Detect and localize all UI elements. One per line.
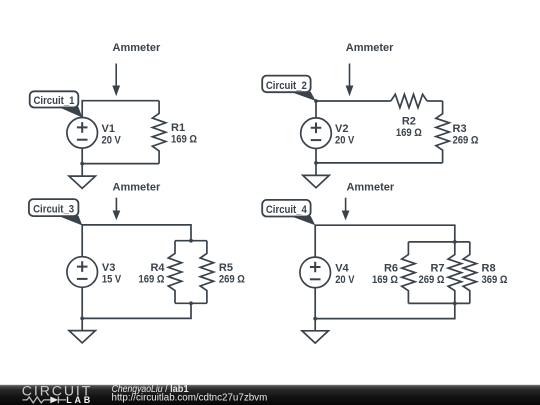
footer title ChengyaoLiu / lab1 bbox=[112, 384, 190, 395]
ammeter arrow (circuit 3) bbox=[113, 198, 121, 221]
resistor R4 bbox=[168, 241, 181, 304]
svg-text:20 V: 20 V bbox=[102, 134, 122, 146]
svg-text:369 Ω: 369 Ω bbox=[482, 274, 508, 286]
svg-text:Circuit_4: Circuit_4 bbox=[266, 204, 308, 216]
voltage source V1 bbox=[67, 118, 98, 149]
svg-text:169 Ω: 169 Ω bbox=[372, 274, 398, 286]
node dot bottom (circuit 4) bbox=[453, 302, 457, 306]
wire parallel top bar (circuit 4) bbox=[408, 241, 469, 243]
svg-text:Circuit_2: Circuit_2 bbox=[266, 80, 307, 92]
resistor R5 bbox=[200, 241, 213, 304]
wire top-left (circuit 2) bbox=[316, 101, 391, 118]
junction dot bottom (circuit 2) bbox=[314, 161, 318, 165]
label R5 269 &#937; bbox=[219, 262, 245, 286]
wire top rail (circuit 1) bbox=[82, 101, 159, 118]
callout Circuit_1 bbox=[30, 91, 83, 117]
svg-text:Ammeter: Ammeter bbox=[113, 42, 161, 54]
svg-text:R2: R2 bbox=[402, 115, 416, 127]
resistor R7 bbox=[448, 242, 461, 304]
wire bottom rail (circuit 1) bbox=[82, 148, 159, 164]
ammeter arrow (circuit 4) bbox=[342, 198, 350, 221]
node dot bottom (circuit 3) bbox=[189, 301, 193, 305]
ammeter arrow (circuit 2) bbox=[346, 64, 354, 97]
CircuitLab logo LAB text bbox=[66, 395, 93, 405]
svg-text:Ammeter: Ammeter bbox=[113, 182, 161, 194]
resistor R8 bbox=[463, 242, 476, 304]
voltage source V3 bbox=[67, 257, 98, 288]
label R4 169 &#937; bbox=[139, 262, 166, 286]
voltage source V4 bbox=[300, 257, 331, 288]
voltage source V2 bbox=[301, 118, 332, 149]
svg-text:LAB: LAB bbox=[66, 395, 93, 405]
resistor R2 bbox=[391, 94, 427, 107]
svg-text:15 V: 15 V bbox=[102, 274, 122, 286]
svg-text:20 V: 20 V bbox=[335, 274, 355, 286]
footer bar bbox=[0, 385, 540, 405]
callout Circuit_2 bbox=[262, 76, 316, 101]
junction dot (circuit 3) bbox=[80, 317, 84, 321]
ammeter arrow (circuit 1) bbox=[112, 64, 120, 97]
label V3 15 V bbox=[102, 262, 122, 286]
resistor R1 bbox=[152, 101, 165, 164]
label R7 269 &#937; bbox=[419, 262, 445, 286]
junction dot (circuit 4) bbox=[313, 317, 317, 321]
svg-text:V4: V4 bbox=[335, 262, 349, 274]
label V4 20 V bbox=[335, 262, 355, 286]
svg-text:V2: V2 bbox=[335, 123, 348, 135]
label R1 169 &#937; bbox=[171, 122, 197, 146]
wire bottom rail (circuit 3) bbox=[82, 287, 191, 318]
svg-text:Ammeter: Ammeter bbox=[346, 182, 394, 194]
label Ammeter (circuit 2) bbox=[346, 42, 394, 54]
svg-text:R3: R3 bbox=[453, 123, 467, 135]
svg-text:269 Ω: 269 Ω bbox=[453, 134, 479, 146]
footer url bbox=[112, 393, 268, 404]
wire parallel bottom bar (circuit 4) bbox=[408, 302, 469, 304]
svg-text:Circuit_3: Circuit_3 bbox=[33, 204, 74, 216]
label V2 20 V bbox=[335, 123, 355, 147]
svg-text:269 Ω: 269 Ω bbox=[419, 274, 445, 286]
svg-text:169 Ω: 169 Ω bbox=[396, 127, 422, 139]
svg-text:http://circuitlab.com/cdtnc27u: http://circuitlab.com/cdtnc27u7zbvm bbox=[112, 393, 268, 404]
node dot top (circuit 3) bbox=[189, 239, 193, 243]
label Ammeter (circuit 1) bbox=[113, 42, 161, 54]
svg-text:269 Ω: 269 Ω bbox=[219, 274, 245, 286]
ground (circuit 4) bbox=[302, 319, 328, 344]
wire top rail (circuit 4) bbox=[315, 225, 455, 257]
svg-text:R5: R5 bbox=[219, 262, 233, 274]
svg-text:Circuit_1: Circuit_1 bbox=[34, 95, 75, 107]
label V1 20 V bbox=[102, 123, 122, 147]
svg-text:R8: R8 bbox=[482, 262, 496, 274]
label Ammeter (circuit 4) bbox=[346, 182, 394, 194]
callout Circuit_3 bbox=[29, 199, 83, 225]
svg-text:R6: R6 bbox=[384, 262, 398, 274]
resistor R3 bbox=[436, 101, 449, 163]
ground (circuit 3) bbox=[69, 318, 95, 343]
label R6 169 &#937; bbox=[372, 262, 398, 286]
ground (circuit 2) bbox=[303, 163, 329, 188]
svg-text:169 Ω: 169 Ω bbox=[171, 134, 197, 146]
wire bottom rail (circuit 4) bbox=[315, 288, 455, 319]
svg-text:R1: R1 bbox=[171, 122, 185, 134]
svg-text:V1: V1 bbox=[102, 123, 115, 135]
node dot top (circuit 4) bbox=[453, 240, 457, 244]
svg-text:20 V: 20 V bbox=[335, 134, 355, 146]
wire bottom rail (circuit 2) bbox=[316, 149, 443, 163]
ground (circuit 1) bbox=[69, 164, 95, 189]
CircuitLab logo resistor-diode glyph bbox=[23, 397, 67, 404]
wire top rail (circuit 3) bbox=[82, 225, 191, 257]
svg-text:R4: R4 bbox=[150, 262, 165, 274]
CircuitLab logo CIRCUIT text bbox=[22, 383, 92, 399]
svg-text:R7: R7 bbox=[430, 262, 444, 274]
wire parallel bottom bar (circuit 3) bbox=[175, 302, 207, 304]
callout Circuit_4 bbox=[262, 200, 315, 225]
wire top-right (circuit 2) bbox=[427, 100, 443, 102]
svg-text:169 Ω: 169 Ω bbox=[139, 274, 165, 286]
label R2 169 &#937; bbox=[396, 115, 422, 139]
svg-text:V3: V3 bbox=[102, 262, 115, 274]
junction dot (circuit 1) bbox=[80, 162, 84, 166]
label R3 269 &#937; bbox=[453, 123, 479, 147]
junction dot top (circuit 2) bbox=[314, 99, 318, 103]
svg-text:Ammeter: Ammeter bbox=[346, 42, 394, 54]
label R8 369 &#937; bbox=[482, 262, 508, 286]
resistor R6 bbox=[402, 242, 415, 304]
wire parallel top bar (circuit 3) bbox=[175, 240, 207, 242]
label Ammeter (circuit 3) bbox=[113, 182, 161, 194]
